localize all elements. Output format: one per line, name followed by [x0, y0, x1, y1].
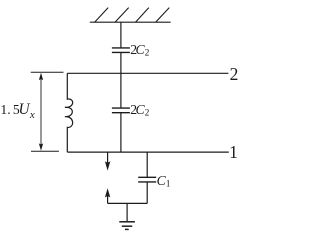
fixed support hatch bar: [90, 21, 171, 23]
C1 branch wire upper: [146, 152, 148, 177]
ground bar 1: [119, 221, 135, 223]
node 2 rail: [67, 72, 228, 74]
ground bar 2: [122, 225, 132, 227]
label node 1: [229, 144, 238, 162]
ground stub: [126, 203, 128, 221]
displacement arrow up shaft: [107, 195, 109, 203]
dimension extension tick bottom: [31, 150, 59, 152]
dimension extension tick top: [31, 71, 64, 73]
bottom wire: [108, 202, 148, 204]
hatch stroke 1: [95, 8, 109, 23]
displacement arrow up head: [105, 188, 110, 197]
label C1 (bottom capacitor): [157, 174, 171, 190]
ground bar 3: [125, 228, 129, 230]
left branch wire with inductor: [65, 73, 73, 152]
dimension arrowhead up: [39, 73, 43, 81]
dimension arrowhead down: [39, 143, 43, 151]
wire support to top capacitor: [120, 22, 122, 48]
displacement arrow down head: [105, 161, 110, 170]
middle branch wire upper: [120, 73, 122, 108]
label 2C2 (middle capacitor): [130, 103, 149, 119]
hatch stroke 3: [136, 8, 149, 23]
capacitor 2C2 middle plates: [112, 107, 130, 109]
C1 branch wire lower: [146, 182, 148, 203]
label node 2: [230, 66, 239, 84]
hatch stroke 4: [156, 8, 170, 23]
capacitor 2C2 top plates: [112, 47, 130, 49]
displacement arrow down shaft: [107, 152, 109, 163]
label 1.5Ux: [0, 102, 34, 121]
label 2C2 (top capacitor): [130, 43, 149, 59]
wire top capacitor to node 2: [120, 53, 122, 74]
middle branch wire lower: [120, 113, 122, 152]
capacitor C1 plates: [138, 176, 156, 178]
hatch stroke 2: [115, 8, 129, 23]
dimension line 1.5Ux: [40, 77, 42, 148]
node 1 rail: [67, 151, 229, 153]
